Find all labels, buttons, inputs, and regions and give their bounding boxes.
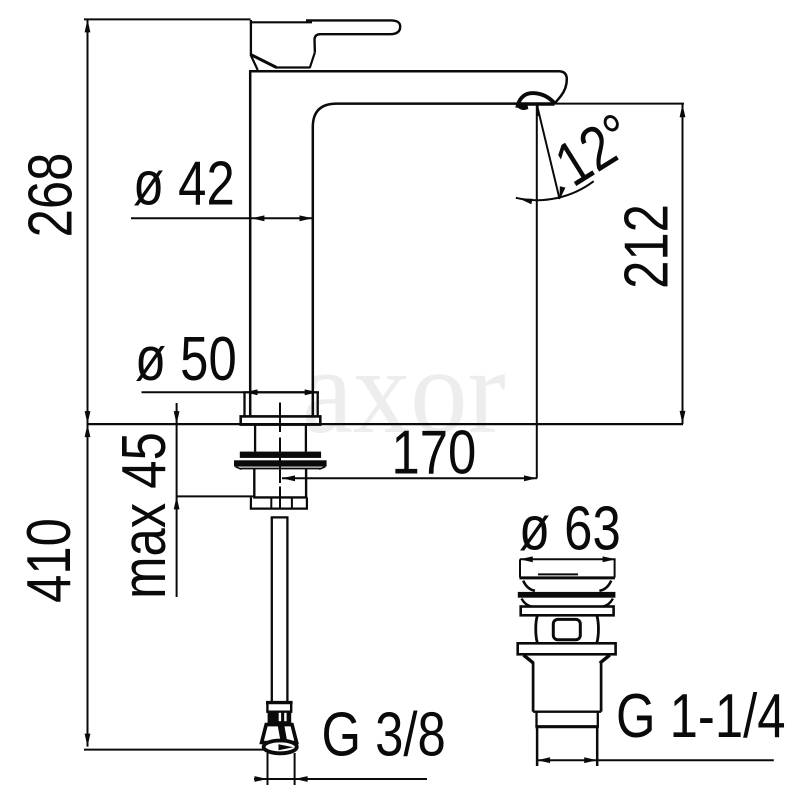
spout tip vertex tick: [536, 104, 539, 116]
hose fitting crimp: [268, 712, 292, 725]
dim o50 arrow left: [245, 389, 258, 395]
dim 170 line: [282, 477, 537, 479]
dim G114 arrow right: [584, 757, 597, 763]
dim 212 vertical line: [682, 104, 684, 424]
dim o50 line: [142, 391, 319, 393]
dim o42 arrow left: [251, 215, 264, 221]
svg-text:G 1-1/4: G 1-1/4: [616, 683, 786, 752]
base plate: [241, 416, 321, 424]
washer taper line: [241, 468, 321, 470]
dim o42 arrow right: [300, 215, 313, 221]
drain shoulders: [524, 655, 534, 663]
drain bar B: [521, 607, 614, 616]
dim 268/410 vertical line: [87, 19, 89, 746]
drain body: [532, 663, 535, 712]
dim o63 extension left: [519, 559, 521, 577]
deck line: [88, 423, 684, 425]
dim 170 arrow right: [524, 475, 537, 481]
hose end nut G 3/8: [262, 725, 297, 743]
angle arc arrow: [519, 199, 532, 205]
threaded shank: [254, 425, 256, 451]
dim 212 arrow top: [680, 104, 686, 117]
dim 410 arrow bottom: [85, 734, 91, 747]
dim max45 arrow top: [174, 411, 180, 424]
svg-text:12°: 12°: [544, 101, 646, 200]
faucet handle hub: [250, 20, 252, 55]
mounting nut: [253, 469, 255, 498]
dim G114 arrow left: [537, 757, 550, 763]
dim o63 arrow left: [520, 556, 533, 562]
svg-text:ø 50: ø 50: [135, 325, 237, 394]
angle slant line: [537, 106, 559, 199]
base flange: [243, 392, 245, 416]
dim max45 arrow bottom: [174, 496, 180, 509]
svg-text:268: 268: [17, 153, 86, 238]
drain step line: [533, 711, 601, 713]
dim max45 vertical line: [176, 403, 178, 597]
washer bar lower: [234, 460, 327, 466]
svg-text:170: 170: [392, 419, 477, 488]
dim o63 arrow right: [603, 556, 616, 562]
hose fitting collar: [267, 703, 291, 712]
drain thread: [536, 727, 539, 766]
faucet body left edge: [249, 70, 252, 416]
supply hose: [271, 517, 273, 702]
dim G114 line: [537, 759, 774, 761]
faucet spout underside: [313, 104, 517, 417]
dim G38 line: [254, 778, 427, 780]
drain plate C: [518, 643, 616, 654]
dim 268/410 extension top: [84, 18, 251, 20]
dim 212 extension line: [555, 103, 685, 105]
dim 268 arrow top: [85, 19, 91, 32]
dim 170 arrow left: [282, 475, 295, 481]
svg-text:G 3/8: G 3/8: [322, 701, 446, 770]
svg-text:ø 63: ø 63: [519, 495, 621, 564]
dim G38 extension left: [267, 753, 269, 785]
dim o63 line: [520, 558, 616, 560]
drain plug dome line: [538, 573, 578, 575]
faucet handle lever: [306, 20, 400, 52]
drain slot: [553, 619, 580, 639]
dim G38 extension right: [294, 753, 296, 785]
handle base wedge: [250, 54, 276, 67]
faucet spout top edge: [249, 71, 567, 103]
dim 410 arrow top: [85, 424, 91, 437]
dim o42 line: [131, 217, 314, 219]
dim o50 arrow right: [305, 389, 318, 395]
angle arc: [516, 181, 594, 200]
drain neck curves: [522, 599, 532, 607]
drain waist: [536, 616, 538, 643]
faucet centerline: [279, 403, 281, 433]
dim 410 extension bottom: [84, 749, 264, 751]
dim 212 arrow bottom: [680, 411, 686, 424]
nut lower section: [250, 497, 252, 508]
svg-text:max 45: max 45: [110, 432, 179, 599]
dim 268 arrow bottom: [85, 411, 91, 424]
drain plug taper: [523, 581, 535, 591]
dim G38 arrow right: [295, 776, 308, 782]
angle slant arrow: [560, 186, 566, 199]
spout aerator: [517, 93, 554, 108]
angle extension vertical: [536, 116, 538, 478]
dim G38 arrow left: [255, 776, 268, 782]
washer bar upper: [240, 452, 321, 458]
svg-text:ø 42: ø 42: [133, 150, 235, 219]
drain inset: [535, 712, 537, 727]
drain bar A: [518, 592, 616, 598]
dim o63 extension right: [614, 559, 616, 577]
drain plug cap: [520, 576, 615, 579]
dim max45 extension: [177, 495, 254, 497]
svg-text:212: 212: [613, 204, 682, 289]
svg-text:410: 410: [15, 518, 84, 603]
